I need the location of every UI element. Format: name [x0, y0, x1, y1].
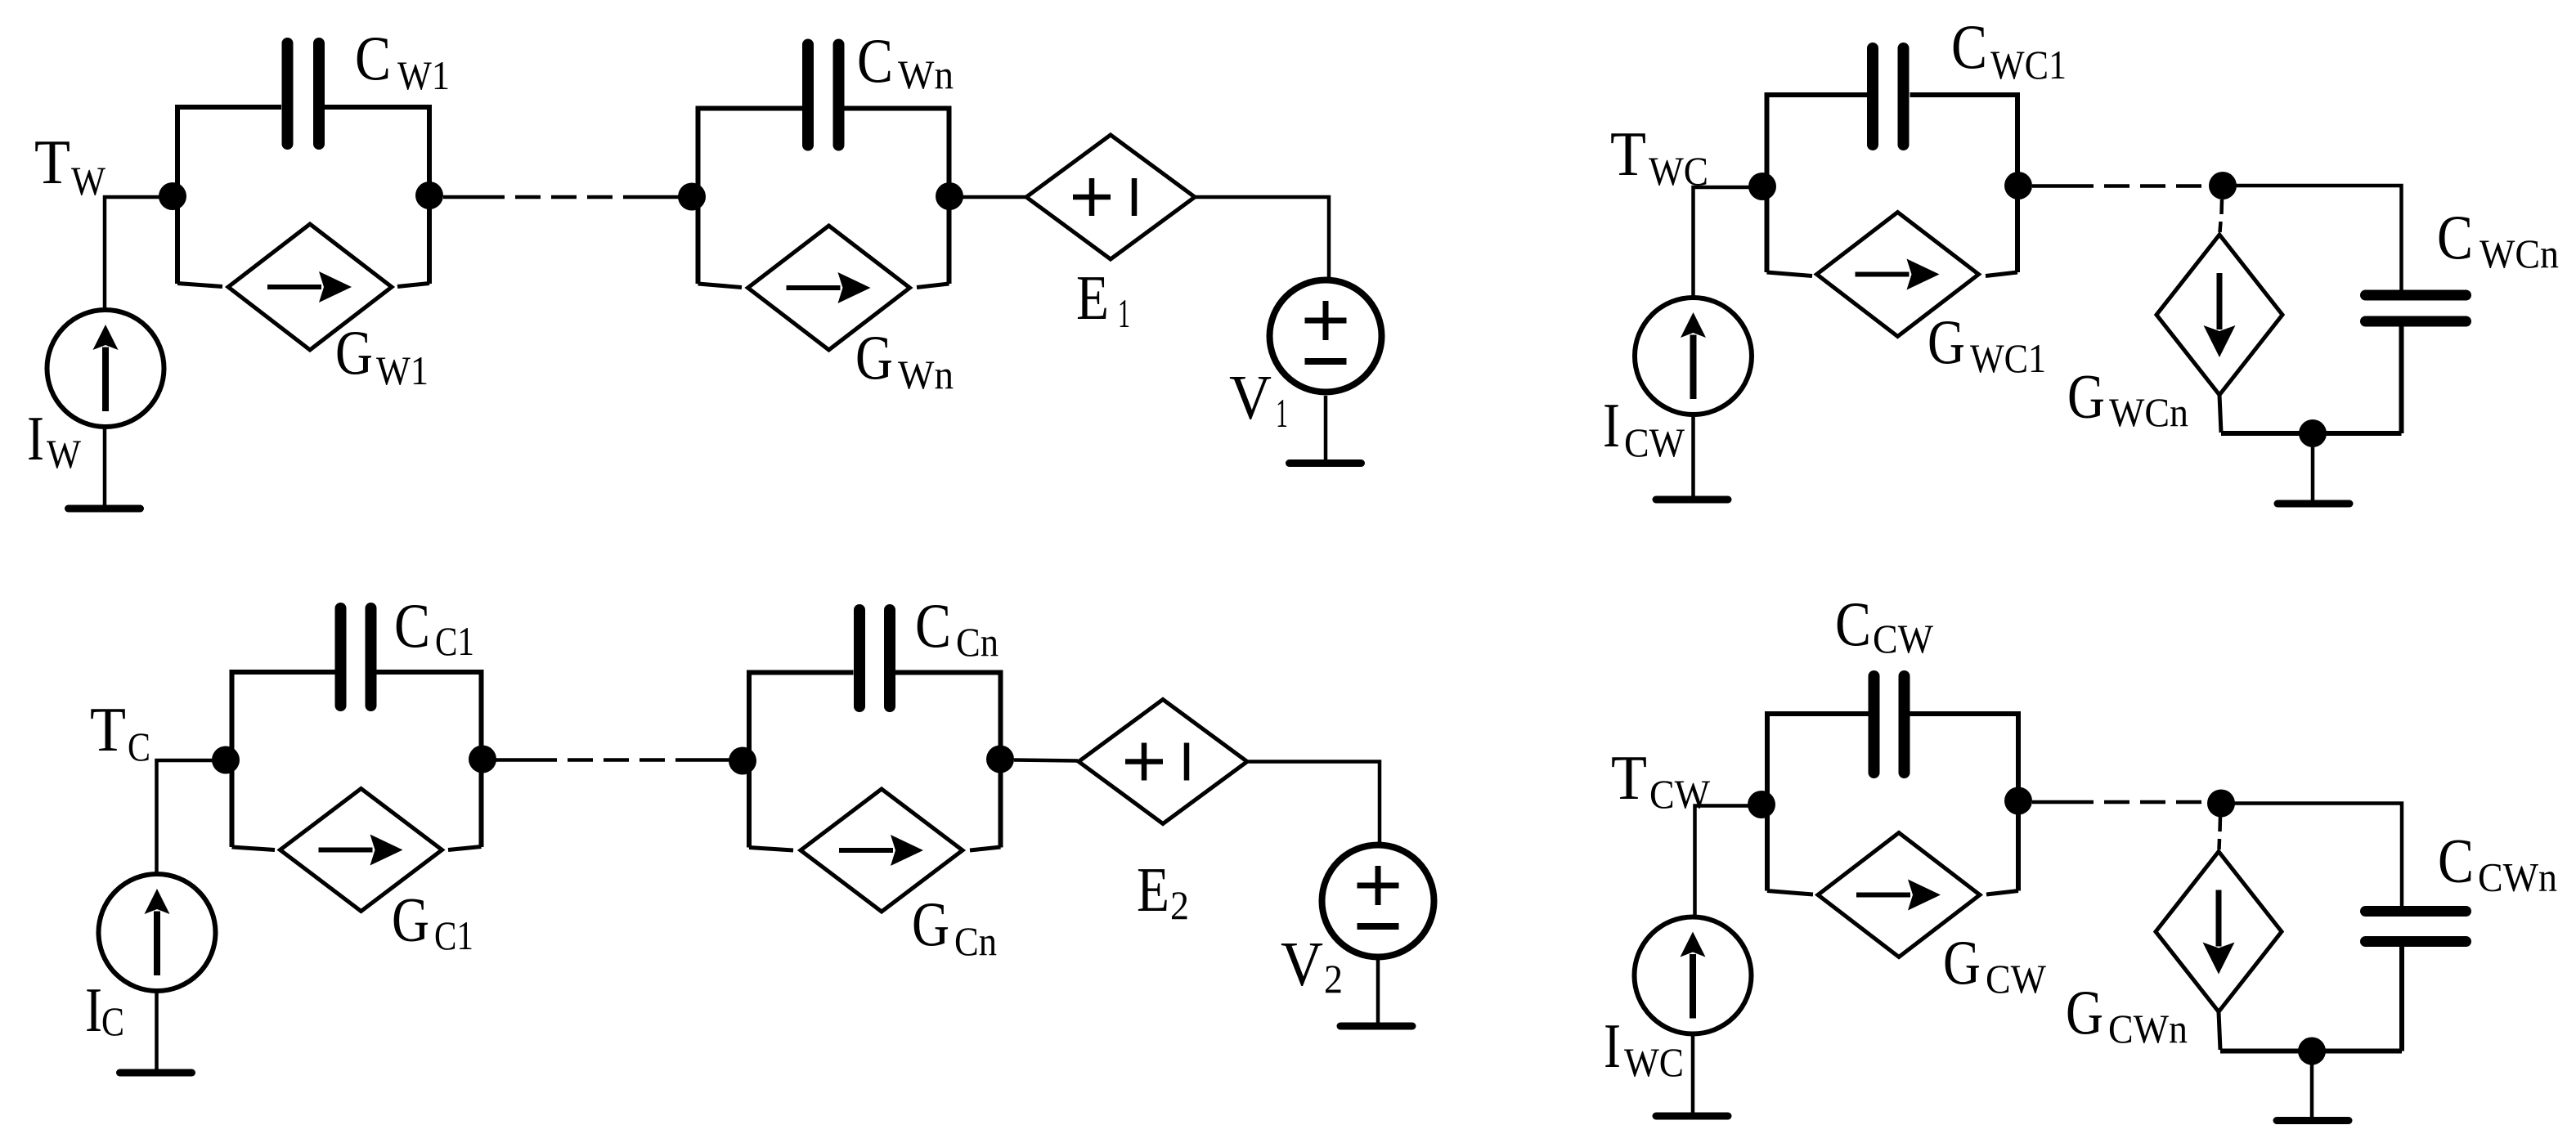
wire stub to G_C1 right	[448, 847, 482, 850]
label I_CW	[1603, 390, 1685, 465]
svg-text:C: C	[915, 590, 951, 661]
junction node 3b	[729, 747, 756, 775]
svg-text:E: E	[1076, 262, 1109, 333]
controlled source G_Cn	[801, 789, 963, 912]
wire stub to G_Cn left	[749, 848, 793, 851]
svg-text:G: G	[912, 889, 949, 959]
svg-text:WCn: WCn	[2109, 389, 2188, 435]
junction node 1c	[936, 182, 963, 210]
label V_1	[1229, 362, 1288, 436]
ground	[2277, 1117, 2349, 1124]
voltage source V1	[1270, 280, 1382, 392]
label E_2	[1137, 854, 1189, 928]
ground	[1290, 459, 1362, 467]
svg-text:W1: W1	[376, 347, 429, 393]
wire loop C_C1 left/top/right	[232, 672, 482, 847]
wire I_CW to ground	[1691, 417, 1695, 496]
wire to E1	[963, 195, 1028, 199]
label I_C	[85, 975, 124, 1045]
wire node to C_WCn	[2223, 186, 2402, 290]
svg-text:G: G	[1943, 927, 1981, 997]
wire stub to G_WC1 right	[1986, 272, 2017, 276]
controlled source G_CW	[1818, 833, 1980, 957]
svg-text:2: 2	[1324, 956, 1343, 1002]
wire loop C_WC1 left/top/right	[1767, 95, 2018, 272]
wire stub to G_WC1 left	[1767, 272, 1813, 276]
svg-text:WC: WC	[1624, 1039, 1684, 1085]
svg-text:G: G	[855, 322, 893, 392]
label C_CW	[1835, 589, 1934, 661]
ground	[1656, 496, 1728, 504]
wire stub to G_CW right	[1986, 891, 2018, 895]
wire dashed node	[496, 758, 731, 762]
svg-text:Wn: Wn	[898, 52, 954, 97]
svg-text:C: C	[1835, 589, 1871, 659]
wire stub to G_W1 left	[177, 284, 222, 287]
wire loop C_CW left/top/right	[1767, 714, 2018, 891]
svg-text:E: E	[1137, 854, 1169, 925]
label E_1	[1076, 262, 1130, 336]
junction node 2b	[2209, 172, 2237, 199]
wire V1 to ground	[1324, 396, 1328, 460]
wire E2 to V2	[1247, 762, 1380, 843]
svg-text:G: G	[1928, 307, 1965, 377]
wire node to C_CWn	[2221, 804, 2402, 907]
current source I_C	[99, 874, 216, 991]
svg-text:C: C	[355, 23, 391, 93]
label G_W1	[335, 317, 429, 393]
svg-text:C: C	[2438, 826, 2474, 896]
label C_WCn	[2437, 202, 2559, 276]
svg-text:G: G	[2067, 361, 2105, 432]
ground	[1656, 1113, 1728, 1120]
ground	[1340, 1023, 1412, 1030]
svg-text:I: I	[1603, 390, 1620, 460]
svg-text:1: 1	[1276, 390, 1288, 436]
current source I_W	[47, 310, 164, 427]
junction node 3a	[469, 746, 496, 773]
svg-text:I: I	[27, 403, 44, 473]
wire T_C lead	[157, 760, 227, 872]
wire to E2	[1014, 760, 1078, 761]
wire G_CWn to bottom	[2219, 1012, 2220, 1051]
wire E1 to V1	[1193, 197, 1329, 278]
label C_CWn	[2438, 826, 2557, 900]
wire I_C to ground	[155, 993, 159, 1069]
capacitor C_Cn	[859, 610, 890, 706]
label C_WC1	[1951, 11, 2067, 87]
svg-text:G: G	[335, 317, 373, 388]
controlled source G_WCn	[2156, 235, 2282, 395]
wire loop C_W1 left/top/right	[177, 107, 429, 284]
label G_CW	[1943, 927, 2047, 1002]
wire loop C_Cn left/top/right	[749, 673, 1001, 848]
node T_C label	[90, 694, 150, 769]
junction node T_C	[212, 746, 240, 774]
node T_CW label	[1611, 742, 1711, 817]
wire stub to G_Wn left	[698, 284, 743, 288]
svg-text:2: 2	[1170, 882, 1189, 928]
capacitor C_WC1	[1873, 48, 1904, 145]
svg-text:T: T	[90, 694, 126, 764]
junction node T_WC	[1748, 173, 1776, 200]
controlled source G_W1	[228, 224, 392, 350]
svg-text:WC1: WC1	[1970, 335, 2046, 381]
svg-text:Cn: Cn	[954, 918, 997, 964]
svg-text:T: T	[34, 127, 70, 197]
svg-text:WCn: WCn	[2480, 231, 2559, 276]
node T_W label	[34, 127, 106, 204]
current source I_CW	[1635, 298, 1752, 415]
node T_WC label	[1610, 119, 1708, 194]
ground	[120, 1069, 192, 1077]
capacitor C_CW	[1874, 676, 1905, 773]
wire bottom rail	[2220, 1049, 2402, 1054]
controlled source G_WC1	[1817, 213, 1979, 337]
voltage source V2	[1322, 845, 1434, 957]
label C_W1	[355, 23, 450, 98]
wire V2 to ground	[1376, 960, 1380, 1023]
controlled voltage source E2	[1079, 700, 1247, 824]
label G_Wn	[855, 322, 954, 397]
wire G_WCn to bottom	[2219, 395, 2221, 433]
svg-text:1: 1	[1118, 290, 1130, 336]
wire I_W to ground	[103, 428, 107, 506]
wire I_WC to ground	[1691, 1036, 1695, 1113]
svg-text:W: W	[47, 431, 82, 477]
svg-text:G: G	[2066, 977, 2103, 1047]
wire stub to G_Wn right	[917, 284, 949, 288]
label G_WCn	[2067, 361, 2188, 436]
controlled source G_C1	[280, 789, 442, 912]
wire bottom rail	[2221, 431, 2402, 436]
label C_C1	[394, 590, 474, 664]
junction node 1a	[415, 182, 443, 209]
svg-text:C: C	[101, 998, 124, 1044]
svg-text:T: T	[1610, 119, 1646, 189]
wire dashed stub to G_CWn	[2219, 817, 2221, 849]
svg-text:Wn: Wn	[898, 352, 954, 397]
label G_CWn	[2066, 977, 2188, 1051]
controlled source G_CWn	[2156, 852, 2282, 1012]
label I_WC	[1604, 1011, 1684, 1085]
svg-text:W1: W1	[397, 52, 450, 98]
junction node 1b	[678, 183, 706, 211]
svg-text:CW: CW	[1986, 956, 2047, 1002]
svg-text:Cn: Cn	[956, 619, 999, 665]
svg-text:CWn: CWn	[2478, 854, 2557, 900]
junction node T_W	[159, 182, 186, 210]
junction node 4c	[2298, 1038, 2326, 1065]
wire dashed node	[443, 195, 680, 199]
wire stub to G_CW left	[1767, 891, 1813, 895]
svg-text:W: W	[71, 158, 106, 204]
svg-text:CW: CW	[1873, 616, 1934, 661]
svg-text:C1: C1	[434, 912, 473, 958]
label V_2	[1281, 929, 1343, 1002]
label I_W	[27, 403, 82, 477]
svg-text:C: C	[1951, 11, 1987, 82]
svg-text:CWn: CWn	[2108, 1006, 2188, 1051]
ground	[69, 505, 141, 513]
svg-text:V: V	[1229, 362, 1272, 433]
wire stub to G_Cn right	[970, 847, 1001, 850]
junction node 3c	[986, 746, 1014, 773]
wire stub to G_W1 right	[397, 284, 429, 287]
svg-text:C: C	[128, 724, 150, 769]
wire dashed node	[2032, 184, 2212, 188]
label C_Wn	[857, 25, 954, 97]
label G_C1	[392, 885, 473, 959]
wire loop C_Wn left/top/right	[698, 109, 949, 285]
wire T_W lead	[105, 197, 173, 308]
capacitor C_CWn	[2366, 912, 2466, 942]
capacitor C_W1	[288, 43, 320, 144]
label C_Cn	[915, 590, 999, 665]
svg-text:WC1: WC1	[1990, 42, 2067, 87]
capacitor C_C1	[341, 608, 371, 706]
svg-text:C: C	[394, 590, 430, 661]
svg-text:CW: CW	[1649, 771, 1711, 817]
svg-text:C1: C1	[435, 618, 474, 664]
wire to ground	[2311, 447, 2315, 500]
wire T_WC lead	[1694, 187, 1763, 296]
controlled source G_Wn	[748, 226, 910, 350]
svg-text:I: I	[85, 975, 102, 1045]
svg-text:V: V	[1281, 929, 1323, 999]
wire C_CWn vertical	[2399, 946, 2404, 1051]
svg-text:C: C	[857, 25, 893, 96]
wire dashed node	[2032, 800, 2212, 805]
junction node 4b	[2207, 790, 2235, 818]
wire stub to G_C1 left	[232, 847, 276, 850]
svg-text:I: I	[1604, 1011, 1621, 1081]
wire dashed stub to G_WCn	[2220, 199, 2223, 232]
svg-text:CW: CW	[1624, 419, 1685, 465]
current source I_WC	[1635, 917, 1752, 1034]
capacitor C_WCn	[2366, 295, 2466, 321]
wire to ground	[2310, 1065, 2314, 1117]
controlled voltage source E1	[1026, 135, 1195, 259]
wire C_WCn vertical	[2399, 326, 2404, 434]
svg-text:G: G	[392, 885, 429, 955]
label G_Cn	[912, 889, 997, 964]
junction node 4a	[2004, 787, 2032, 815]
junction node 2c	[2299, 419, 2327, 447]
svg-text:T: T	[1611, 742, 1647, 813]
wire T_CW lead	[1695, 806, 1762, 916]
ground	[2278, 500, 2349, 508]
label G_WC1	[1928, 307, 2046, 381]
junction node 2a	[2004, 172, 2032, 199]
capacitor C_Wn	[808, 45, 839, 146]
svg-text:C: C	[2437, 202, 2473, 272]
junction node T_CW	[1748, 791, 1775, 818]
